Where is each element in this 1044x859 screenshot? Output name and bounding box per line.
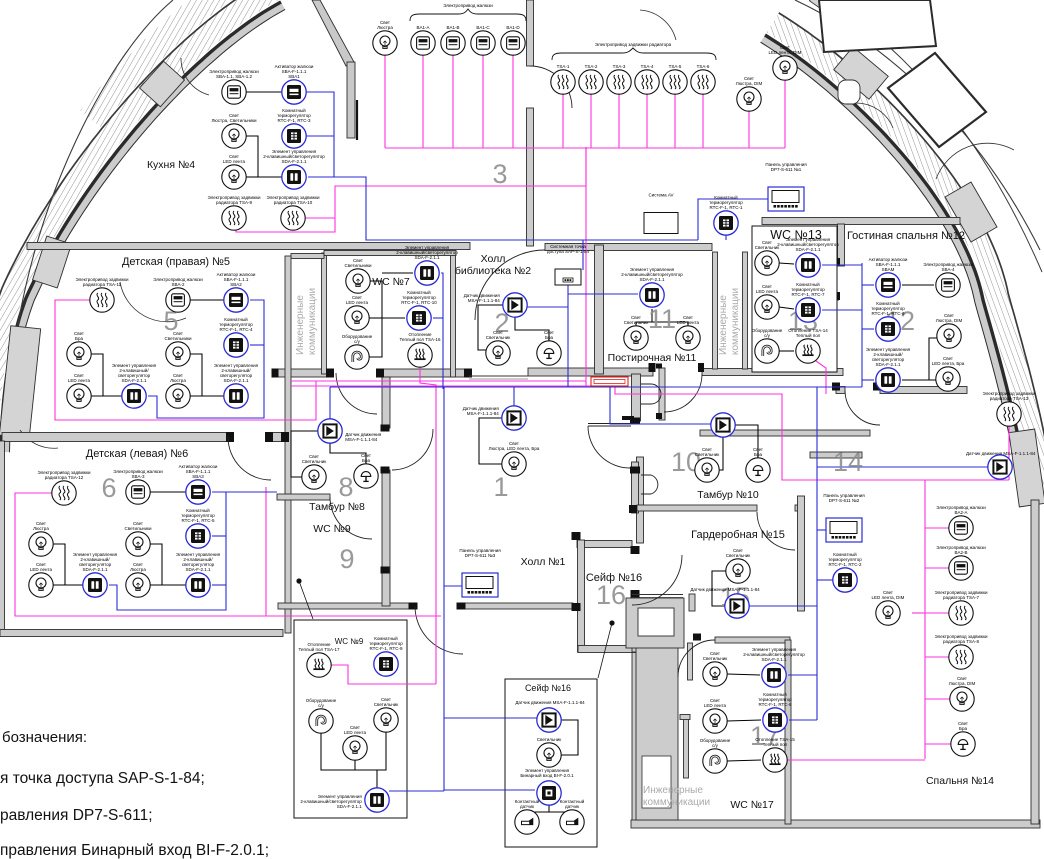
svg-text:СветБра: СветБра [74,331,84,341]
floor heating TSA-14 [796,339,820,363]
svg-text:коммуникации: коммуникации [730,288,741,355]
svg-text:Гардеробная №15: Гардеробная №15 [691,529,785,541]
door tambur8 to hall [392,429,433,470]
svg-text:BA1-B: BA1-B [446,25,459,30]
wall tambur10 left [632,462,639,513]
wire blue hall trunk [443,387,445,791]
light LED room5 [67,384,91,408]
wire room6 led link [53,584,83,586]
svg-text:Электропривод задвижкирадиатор: Электропривод задвижкирадиатора TSA-13 [983,391,1036,401]
wire WC9 led link [354,760,356,770]
wall WC7 right [451,251,456,377]
light LED WC7 [345,306,369,330]
wire tambur10 bra link [735,425,758,458]
wire tambur8 bra link [330,443,366,464]
wire room5 lights link [190,354,224,396]
thermostat RTC-7 [796,298,820,322]
svg-text:3: 3 [492,159,507,189]
shaft block bottom [636,610,678,820]
control panel control panel DP7 N1 [768,187,804,211]
wall wardrobe top left [637,505,757,511]
wire WC13 light link [779,263,794,264]
wire blue main bus [330,386,862,388]
wire WC17 led link [727,720,761,721]
blind drive BA1-D [501,31,525,55]
wall bedroom14 sill [810,452,862,458]
wall hall right lower [632,649,640,824]
control panel control panel DP7 N2 [826,518,862,542]
wall bedroom14 top [700,430,870,436]
wire room5 led link [91,395,122,397]
wall WC7 bottom left [272,369,332,377]
wire blue SAP vertical [567,285,569,387]
wire magenta corridor upper [291,380,586,382]
light fixtures room6 [126,532,150,556]
wire WC17 equip link [727,760,761,761]
wire blue living control stub [862,379,874,381]
wire blue wardrobe motion stub [749,605,817,607]
wire WC9 equip link [321,732,386,770]
svg-text:Светильник: Светильник [537,737,561,742]
svg-text:Холл: Холл [481,253,506,265]
svg-text:Датчик движения MSA-F-1.1.1-84: Датчик движения MSA-F-1.1.1-84 [966,451,1036,456]
radiator valve TSA-3 [607,70,631,94]
wall end cap [265,432,273,442]
light bra bedroom [951,732,975,756]
wire room5 lustre link [190,395,224,397]
wire magenta room5 loop [55,300,316,420]
wire kitchen blinds link [246,91,282,93]
motion sensor wardrobe [725,594,749,618]
light hall1 [502,452,526,476]
right facade window band hatch [767,13,1044,505]
light LED WC9 [343,736,367,760]
radiator valve TSA-10 [281,206,305,230]
radiator valve TSA-13 [997,402,1021,426]
light lustre DIM living [937,324,961,348]
svg-text:Электропривод жалюзи: Электропривод жалюзи [443,3,493,8]
wire safe16 sensor-light link [561,720,578,755]
svg-text:BA1-D: BA1-D [506,25,520,30]
WC13 detail box [752,226,837,372]
svg-text:TSA-3: TSA-3 [613,64,626,69]
door hall2 top [475,250,545,320]
light kitchen chandelier [222,124,246,148]
thermostat RTC-9 [374,652,398,676]
control element SDA WC13 [796,253,820,277]
wire room6 lights link [150,544,186,585]
wire magenta drop TSA-6 [702,94,704,148]
light LED DIM [773,56,797,80]
wire blue right trunk [816,387,818,720]
wall end cap [622,416,634,420]
radiator valve TSA-9 [222,206,246,230]
right facade outer window line [779,13,1044,501]
door room6 [228,437,271,480]
wall WC7 top [324,251,456,256]
svg-text:Электропривод задвижкирадиатор: Электропривод задвижкирадиатора TSA-11 [76,277,129,287]
blind drive BA2-B [949,556,973,580]
wall room6 left [0,441,5,633]
wall end cap [376,369,384,378]
wall end cap [656,413,662,419]
access point access point SAP-S-1-84 [555,269,581,285]
equipment WC13 [755,339,779,363]
svg-text:Датчик движения MSA-F-1.1.1-84: Датчик движения MSA-F-1.1.1-84 [515,700,585,705]
svg-text:6: 6 [101,473,116,503]
kitchen notch wall vertical [347,62,355,138]
wall corridor stub [689,594,695,611]
svg-text:Датчик движенияMSA-F-1.1.1-84: Датчик движенияMSA-F-1.1.1-84 [345,432,382,442]
wall tambur8 left [285,256,291,633]
opening lintel hall1 top [469,375,528,377]
wire WC7 col link [369,281,382,357]
motion sensor safe16 [537,708,561,732]
svg-text:Электропривод задвижки радиато: Электропривод задвижки радиатора [595,42,672,47]
equipment WC7 [345,345,369,369]
light lustre room5 [166,384,190,408]
left facade outer balcony arc [3,0,173,460]
wire blue WC13 thermostat stub [822,309,862,311]
svg-text:Панель управленияDP7-S-611 №1: Панель управленияDP7-S-611 №1 [765,162,807,172]
left facade inner wall thick dark line [1,2,281,452]
wire blue WC7 control [441,273,443,389]
wall end cap [631,546,640,554]
wire blue RTC-1 link [725,235,727,240]
wire hall2 motion-light link [478,305,503,350]
WC9 detail box [294,620,407,818]
light lustre DIM bedroom [950,687,974,711]
svg-text:Детская (правая) №5: Детская (правая) №5 [122,256,230,268]
wire magenta TSA-14 drop [816,361,826,394]
control panel control panel DP7 N3 [462,573,498,597]
left facade pier 1 [140,61,185,106]
svg-text:Электропривод жалюзиSBA-1.1, S: Электропривод жалюзиSBA-1.1, SBA-1.2 [209,69,259,79]
blind activator SBA3 [186,480,210,504]
right facade outer balcony arc 2 [826,0,1042,272]
wire magenta bus top [385,147,785,149]
light fixture WC9 [374,708,398,732]
blind drive BA2-A [949,516,973,540]
wire magenta stub LED DIM [912,612,925,614]
wall room6 bottom [0,630,283,637]
wall end cap [873,383,881,391]
wire room5 blinds link [190,299,224,301]
radiator valve TSA-11 [90,288,114,312]
right facade outer balcony arc [795,0,1040,250]
svg-text:библиотека №2: библиотека №2 [455,265,531,277]
wire magenta drop light chandelier top [384,55,386,148]
balcony terrace top [819,0,936,52]
wire safe16 contacts link [527,810,572,812]
blind drive BA1-B [441,31,465,55]
wire blue room6 control stub [212,584,226,586]
motion sensor bedroom14 [988,455,1012,479]
wall end cap [464,369,472,378]
wire magenta TSA-15 link [787,759,925,761]
control element SDA room6 right [186,573,210,597]
contact sensor 2 [560,810,584,834]
wire laundry control drop [651,309,653,322]
wall WC17 step [680,715,690,720]
wire magenta stub bra [925,743,951,745]
wire living blinds link [902,284,934,286]
wall WC17 left upper [688,643,693,680]
wall shaft2 left [713,252,718,369]
thermostat RTC-6 [876,317,900,341]
svg-text:Тамбур №8: Тамбур №8 [309,501,365,513]
motion sensor tambur10 [711,413,735,437]
wire blue laundry control stub [568,293,638,295]
floor heating TSA-16 [408,343,432,367]
wall bottom outer [631,820,1040,828]
wire magenta drop BA1-C [482,55,484,148]
window swing room6 [20,430,58,448]
wire magenta trunk hall [420,367,436,684]
wall end cap [832,383,840,391]
wall end cap [631,590,640,598]
svg-text:WC №9: WC №9 [335,637,364,646]
blind drive BA1-C [471,31,495,55]
contact sensor 1 [515,810,539,834]
wall wardrobe top right [795,505,801,511]
wire WC17 light link [727,674,760,675]
blind drive SBA-3 [126,480,150,504]
wire magenta drop TSA-4 [646,94,648,148]
wall end cap [572,532,581,540]
wall end cap [698,363,704,372]
svg-text:Гостиная спальня №12: Гостиная спальня №12 [847,230,965,242]
wire blue safe16 motion [444,717,537,719]
wall hall right middle [637,457,644,543]
wire blue tambur10 motion [610,387,711,424]
wall safe16 left [578,540,585,652]
wire blue RTC-2 stub [817,579,833,581]
svg-text:Датчик движенияMSA-F-1.1.1-84: Датчик движенияMSA-F-1.1.1-84 [463,406,500,416]
window niche right facade [838,80,860,104]
wire blue WC17 control stub [788,674,817,676]
wall end cap [409,603,418,610]
svg-text:Панель управленияDP7-S-611 №3: Панель управленияDP7-S-611 №3 [459,548,501,558]
svg-text:правления Бинарный вход BI-F-2: правления Бинарный вход BI-F-2.0.1; [0,842,269,859]
door safe16 [632,555,682,605]
door WC7 to tambur [336,373,377,414]
wire blue living thermostat stub [862,328,874,330]
door hall right leaf [588,424,631,427]
svg-text:1: 1 [493,472,508,502]
svg-text:WC №17: WC №17 [730,799,774,811]
shaft text right [718,288,741,355]
svg-text:коммуникации: коммуникации [643,797,710,808]
wire blue panel2 stub [817,529,826,531]
door living room [805,266,839,300]
wall safe16 bottom [578,646,636,653]
wire room6 blinds link [150,491,186,493]
wire magenta room6 loop [15,493,441,616]
window swing kitchen [181,58,209,95]
AV system box [644,213,678,234]
wall living bottom left [836,387,845,394]
wall tambur8 right upper [382,377,390,428]
left facade outer window line [0,0,268,451]
wire blue WC13 control stub [822,264,862,266]
wall laundry top [545,244,712,251]
node WC9 reference dot [296,578,301,583]
light fixture wardrobe [726,559,750,583]
niche frame right of safe16 [626,598,684,648]
light LED laundry [676,326,700,350]
wire WC7 control link [382,272,413,274]
light LED WC13 [755,295,779,319]
svg-text:TSA-2: TSA-2 [585,64,598,69]
wire blue kitchen control to main [308,177,698,240]
right facade pier 3 [1009,429,1044,507]
svg-text:Инженерные: Инженерные [643,785,703,796]
svg-text:9: 9 [339,544,354,574]
light fixture WC13 [755,251,779,275]
node safe16 reference dot [609,620,614,625]
door corridor leaf [641,384,661,404]
svg-text:Панель управленияDP7-S-611 №2: Панель управленияDP7-S-611 №2 [823,493,865,503]
light fixture tambur8 [302,465,326,489]
left facade pier 2 [33,236,72,288]
svg-text:BA1-C: BA1-C [476,25,490,30]
door living bottom [845,390,880,425]
svg-text:СветБра: СветБра [544,330,554,340]
wire blue SAP riser [582,240,584,270]
wire safe16 binary link [548,805,550,812]
wire magenta WC9 floorheat [331,665,436,684]
wire WC7 thermostat link [382,317,405,319]
light fixtures room5 [166,342,190,366]
light fixture laundry [624,326,648,350]
wire WC9 control link [376,770,378,788]
floor heating TSA-17 [307,653,331,677]
motion sensor tambur8 [318,419,342,443]
blind drive SBA-4 [936,273,960,297]
wire living lustre link [929,338,937,380]
red heater element [591,377,628,386]
wire magenta corridor to bedroom [615,386,1009,480]
door WC9 top [330,497,372,539]
wall hall bottom [463,603,573,609]
light chandelier top [373,31,397,55]
wall end cap [832,258,840,266]
wire tambur10 light link [719,437,723,470]
window swing room5 [120,282,186,322]
window swing right 3 [936,143,1014,179]
wire blue riser to panel1 [698,199,768,240]
right facade inner wall gray band [761,36,1029,506]
left facade window band hatch [0,0,280,452]
control element SDA room6 left [83,573,107,597]
wire blue WC17 thermostat stub [789,719,817,721]
light kitchen LED [222,165,246,189]
door hall bottom left [415,606,463,654]
kitchen notch wall slanted [312,0,354,66]
wire room6 lustre2 link [150,584,186,586]
svg-text:8: 8 [338,472,353,502]
light fixture safe16 [537,743,561,767]
svg-text:TSA-5: TSA-5 [669,64,682,69]
svg-text:TSA-1: TSA-1 [557,64,570,69]
wire magenta stub lustre DIM [925,698,950,700]
equipment WC17 [703,749,727,773]
safe16 detail box [505,679,597,847]
wire magenta stub TSA-7 [925,612,949,614]
svg-text:Спальня №14: Спальня №14 [926,775,994,787]
wire blue kitchen activator [306,92,334,177]
wall WC17 top [715,637,790,643]
window swing right 1 [640,10,676,40]
door sill safe16 [632,594,683,596]
svg-text:бозначения:: бозначения: [2,729,87,746]
door wardrobe15 [757,512,795,550]
blind activator SBAM [876,273,900,297]
wire WC13 led link [779,307,794,309]
svg-text:Постирочная №11: Постирочная №11 [608,352,697,364]
svg-text:WC №9: WC №9 [313,523,351,535]
wire hall1 light link [479,418,502,464]
wall end cap [272,369,279,378]
svg-text:Сейф №16: Сейф №16 [586,572,642,584]
wall hall right upper [632,374,641,421]
wire blue panel3 stub [444,585,462,587]
window swing right 2 [855,103,893,128]
blind activator SBA1 [282,80,306,104]
door kitchen [530,66,572,108]
right facade pier 1 [834,47,889,100]
wire kitchen lights link [246,136,282,177]
svg-text:BA1-A: BA1-A [416,25,429,30]
light fixture hall2 [486,341,510,365]
wire hall2 motion-bra link [515,317,549,341]
wall tambur8 bottom [277,494,330,500]
svg-text:WC №13: WC №13 [770,228,822,242]
wall end cap [832,292,840,300]
thermostat RTC-8 [763,708,787,732]
wall living bottom right [880,387,967,394]
svg-text:11: 11 [648,304,676,334]
wire magenta drop TSA-1 [562,94,564,148]
svg-text:СветБра: СветБра [958,721,968,731]
door hall right arc [588,426,630,468]
wall shaft right [322,253,327,374]
wire WC7 led link [369,317,382,319]
wall end cap [281,432,289,442]
svg-text:WC №7: WC №7 [372,276,410,288]
wall living left upper [838,224,845,266]
wire blue WC7 thermostat stub [433,317,443,319]
blind drive SBA-2 [166,288,190,312]
wire blue kitchen thermostat stub [306,135,334,137]
radiator valve TSA-6 [691,70,715,94]
wall B right segment [702,369,843,376]
brace blinds group [410,9,526,21]
wire blue living activator stub [862,284,874,286]
light LED bra living [936,367,960,391]
motion sensor hall1 [502,406,526,430]
wire magenta drop BA1-D [512,55,514,148]
wall end cap [693,634,701,641]
control element SDA WC9 [365,788,389,812]
radiator valve TSA-8 [949,645,973,669]
wire living led link [902,379,936,381]
wire magenta drop light lustre DIM [748,111,750,148]
wire magenta kitchen TSA-10 stub [305,217,335,219]
motion sensor hall2 [503,293,527,317]
wall end cap [630,467,640,474]
